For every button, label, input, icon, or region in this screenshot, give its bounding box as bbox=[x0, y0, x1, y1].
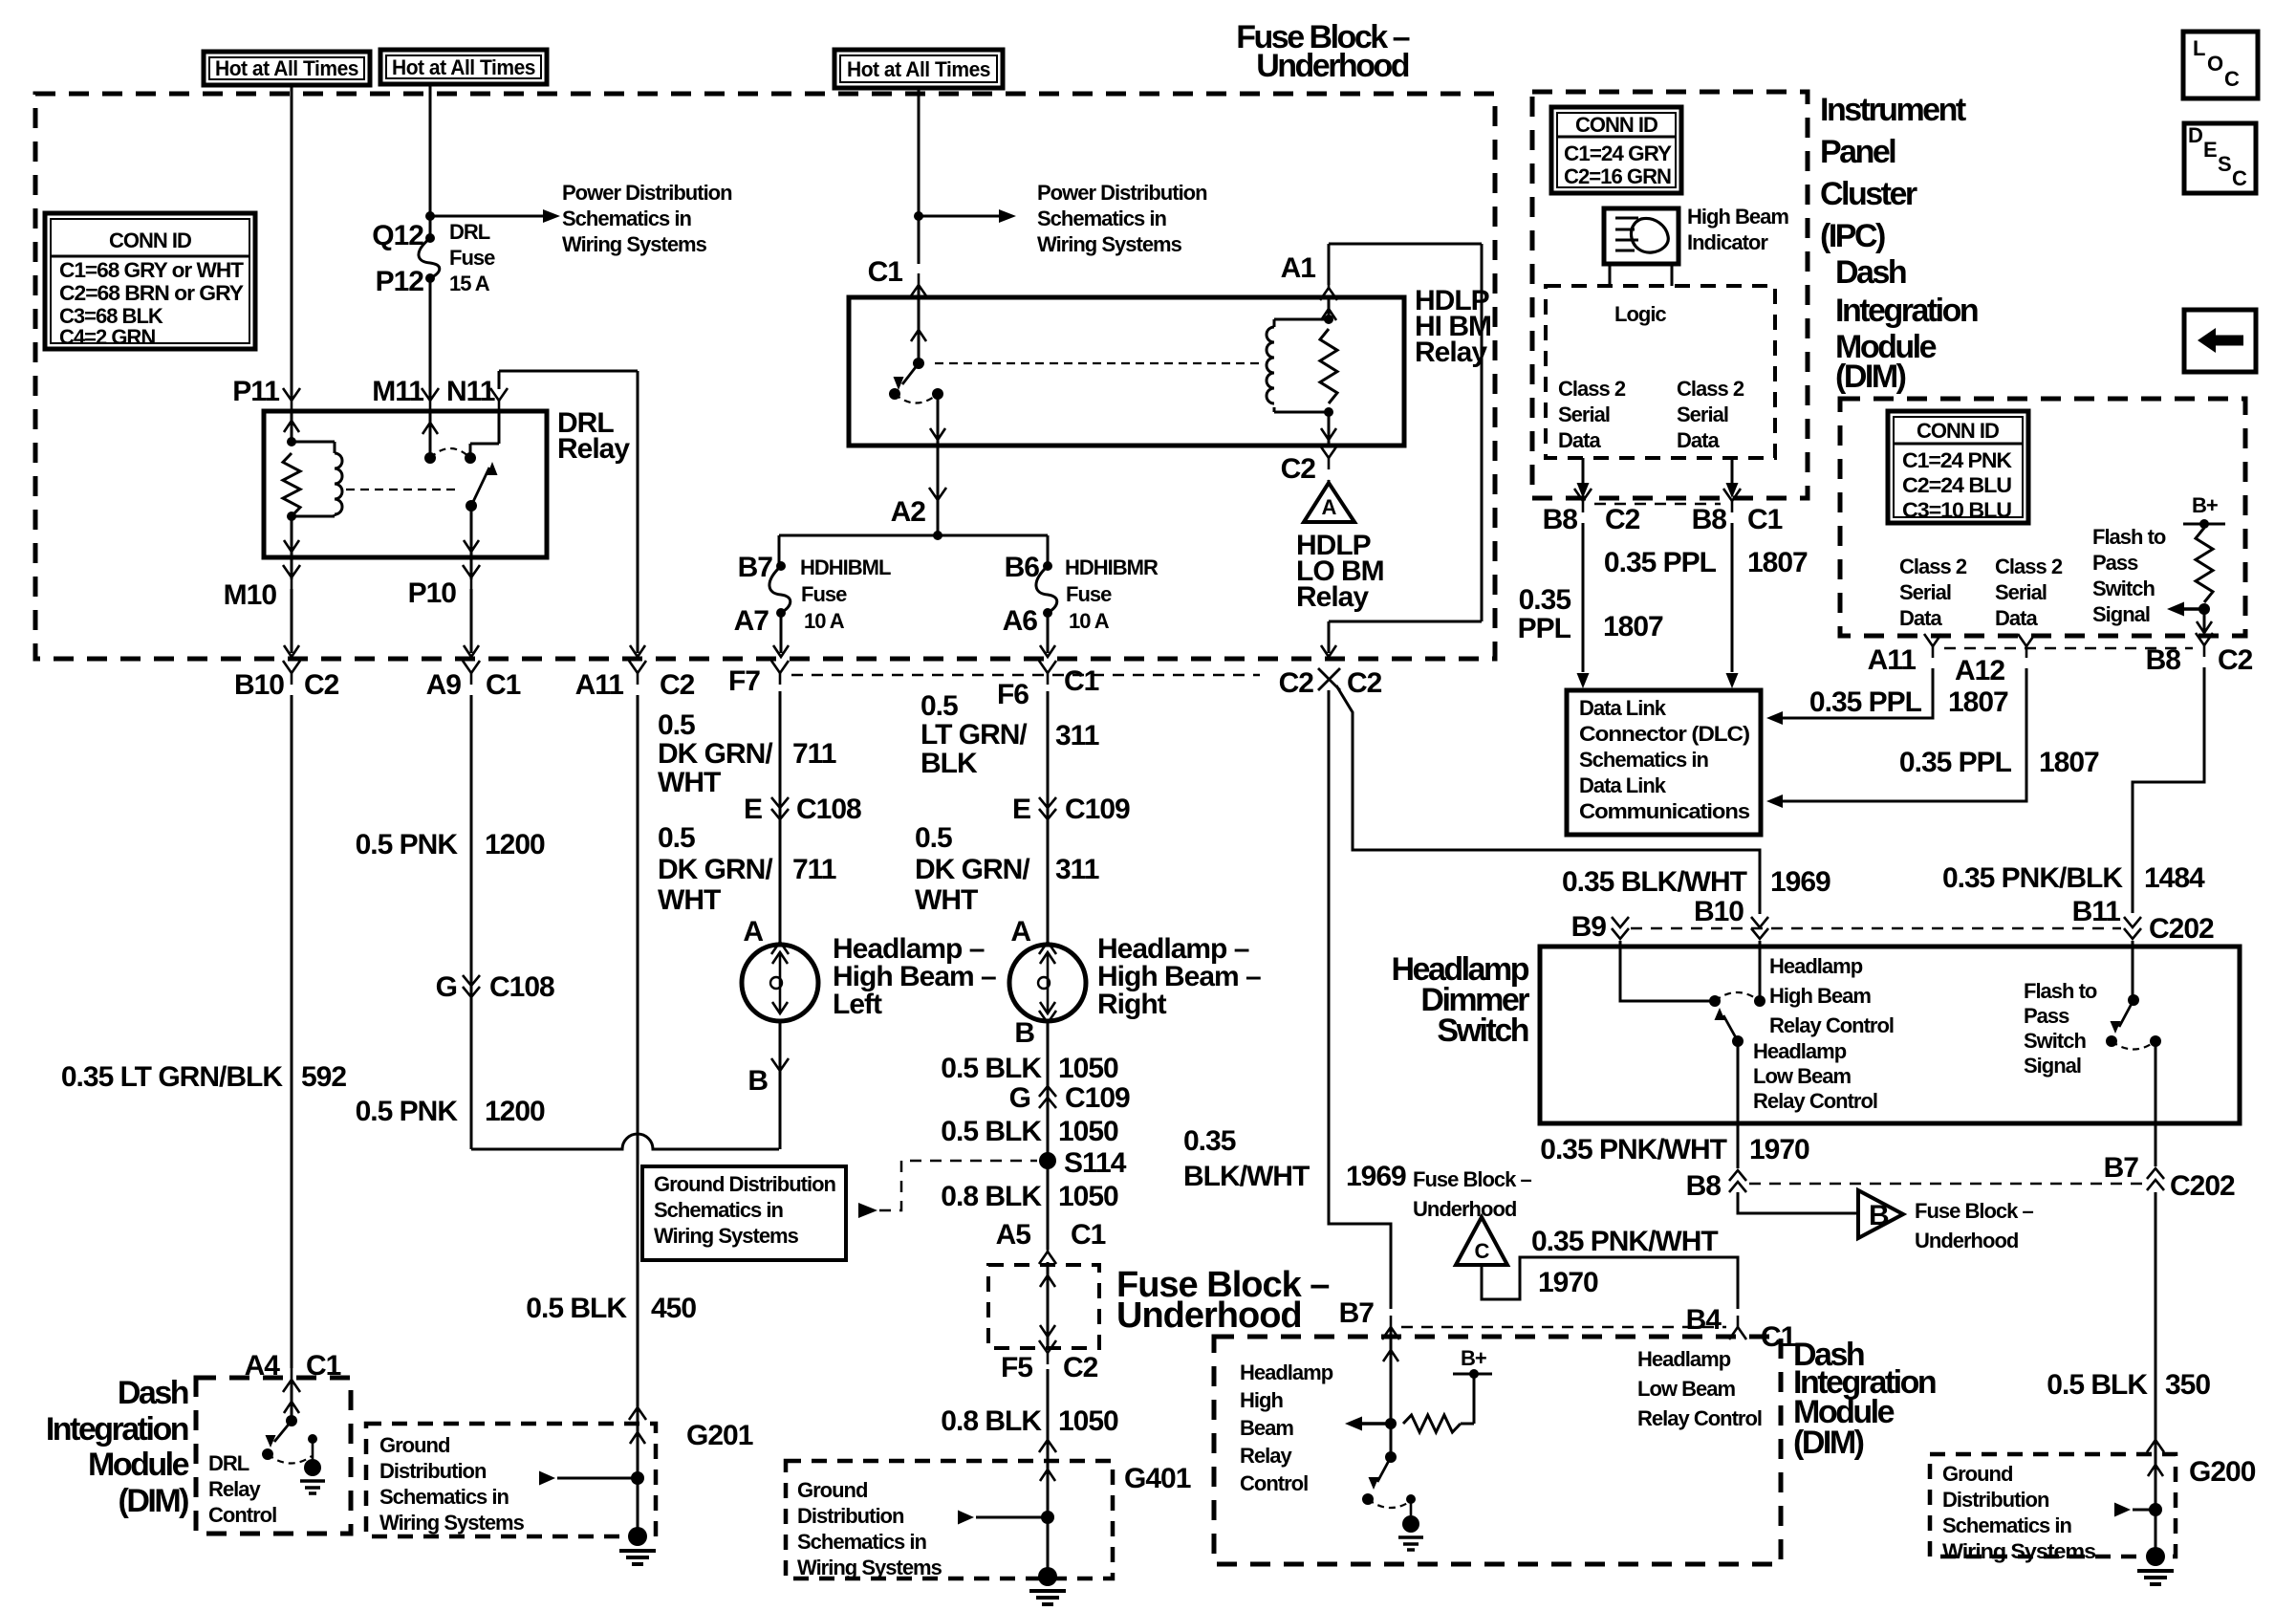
svg-text:B4: B4 bbox=[1686, 1304, 1722, 1336]
pin A (headlamp right) bbox=[1010, 916, 1056, 954]
junction on Hot2 wire bbox=[425, 211, 435, 221]
svg-text:WHT: WHT bbox=[658, 767, 721, 798]
svg-text:Schematics in: Schematics in bbox=[797, 1530, 927, 1554]
wire triangle C to B4 (0.35 PNK/WHT 1970) bbox=[1482, 1257, 1738, 1309]
label Class 2 Serial Data (DIM right) bbox=[1995, 555, 2063, 630]
splice S114 bbox=[1039, 1147, 1127, 1179]
svg-text:0.35 PNK/WHT: 0.35 PNK/WHT bbox=[1531, 1226, 1718, 1257]
node C2 x C2 crossing bbox=[1279, 667, 1382, 699]
svg-text:Relay: Relay bbox=[557, 433, 630, 465]
wire through fuse block pass-through bbox=[1040, 1262, 1055, 1350]
resistor high beam control (DIM) bbox=[1403, 1415, 1461, 1432]
svg-text:Fuse Block –: Fuse Block – bbox=[1915, 1199, 2033, 1223]
svg-text:Data: Data bbox=[1899, 606, 1942, 630]
reference arrow to S114 bbox=[858, 1161, 1037, 1218]
node G / C108 bbox=[436, 971, 554, 1003]
reference box Data Link Connector (DLC) bbox=[1567, 690, 1761, 835]
ground G201 bbox=[619, 1527, 656, 1564]
wire HDHIBMR fuse to F6 bbox=[1040, 613, 1055, 657]
svg-text:S: S bbox=[2218, 152, 2231, 176]
svg-text:Distribution: Distribution bbox=[379, 1459, 487, 1483]
flash to pass output contact bbox=[2150, 1035, 2161, 1047]
table CONN ID (IPC) bbox=[1551, 107, 1681, 193]
svg-text:Schematics in: Schematics in bbox=[654, 1198, 784, 1222]
svg-text:P12: P12 bbox=[376, 266, 424, 297]
svg-text:F6: F6 bbox=[997, 679, 1029, 710]
svg-text:B7: B7 bbox=[1339, 1297, 1375, 1329]
svg-text:Q12: Q12 bbox=[372, 220, 423, 251]
svg-text:DK GRN/: DK GRN/ bbox=[658, 854, 773, 885]
svg-text:1050: 1050 bbox=[1058, 1116, 1118, 1147]
node B10 bbox=[1694, 896, 1768, 939]
svg-text:Data: Data bbox=[1677, 428, 1720, 452]
svg-text:Schematics in: Schematics in bbox=[1037, 207, 1167, 230]
svg-text:1807: 1807 bbox=[1603, 611, 1663, 642]
svg-text:1807: 1807 bbox=[1747, 547, 1808, 578]
DRL relay coil-switch link (dashed) bbox=[346, 489, 459, 490]
node A4 / C1 bbox=[245, 1350, 341, 1392]
svg-text:Communications: Communications bbox=[1579, 799, 1750, 823]
resistor in HI BM relay bbox=[1320, 329, 1337, 403]
pin F5 / C2 bbox=[1001, 1340, 1098, 1383]
svg-text:C108: C108 bbox=[489, 971, 554, 1003]
label Headlamp Dimmer Switch bbox=[1392, 951, 1530, 1049]
svg-text:Data Link: Data Link bbox=[1579, 696, 1667, 720]
wire to power distribution reference (arrow) bbox=[430, 209, 560, 223]
svg-text:Module: Module bbox=[88, 1447, 189, 1483]
svg-text:C2: C2 bbox=[1063, 1352, 1098, 1383]
ground G401 bbox=[1029, 1567, 1066, 1604]
svg-text:C2: C2 bbox=[1281, 453, 1316, 485]
svg-text:WHT: WHT bbox=[915, 884, 978, 916]
svg-text:N11: N11 bbox=[446, 376, 495, 407]
label DRL Relay Control bbox=[208, 1451, 276, 1527]
svg-text:C2: C2 bbox=[1347, 667, 1382, 699]
svg-text:A11: A11 bbox=[1868, 644, 1917, 676]
G401 internal junction bbox=[1041, 1511, 1054, 1524]
node A11 (DIM) bbox=[1868, 634, 1941, 676]
wire into G201 ground bbox=[629, 1396, 646, 1536]
node B8 / C1 (IPC) bbox=[1692, 489, 1783, 535]
wire logic to B8 C1 bbox=[1726, 458, 1739, 498]
node A9 / C1 bbox=[426, 661, 521, 701]
svg-text:C1: C1 bbox=[1064, 665, 1099, 697]
svg-text:1050: 1050 bbox=[1058, 1181, 1118, 1212]
DIM connector row dashed line bbox=[1944, 647, 2193, 650]
label Headlamp - High Beam - Right bbox=[1097, 933, 1261, 1020]
HI BM relay switch throw arc (dashed) bbox=[895, 394, 938, 403]
svg-text:0.35 LT GRN/BLK: 0.35 LT GRN/BLK bbox=[61, 1061, 283, 1093]
svg-text:Pass: Pass bbox=[2024, 1004, 2069, 1028]
pin B (headlamp right) bbox=[1014, 1011, 1056, 1049]
svg-text:C1: C1 bbox=[868, 256, 903, 288]
svg-text:0.5: 0.5 bbox=[658, 822, 695, 854]
svg-text:High Beam: High Beam bbox=[1769, 984, 1871, 1008]
svg-text:E: E bbox=[744, 794, 762, 825]
svg-text:A12: A12 bbox=[1955, 655, 2004, 686]
wire headlamp left B down bbox=[779, 1021, 782, 1149]
svg-text:Data Link: Data Link bbox=[1579, 773, 1667, 797]
svg-text:Data: Data bbox=[1558, 428, 1601, 452]
wire B+ resistor to C2 exit bbox=[2197, 609, 2212, 633]
DRL relay control switch wiper bbox=[266, 1421, 292, 1448]
svg-text:C2: C2 bbox=[304, 669, 339, 701]
node E / C109 bbox=[1012, 794, 1130, 825]
reference box Ground Distribution Schematics in Wiring Systems (S114) bbox=[642, 1166, 846, 1260]
svg-text:Signal: Signal bbox=[2024, 1054, 2081, 1078]
node M10 bbox=[224, 557, 300, 611]
wire label 0.35 PPL 1807 (right IPC wire) bbox=[1604, 547, 1808, 578]
svg-text:(DIM): (DIM) bbox=[1793, 1425, 1864, 1461]
svg-text:G401: G401 bbox=[1124, 1463, 1191, 1494]
svg-text:C202: C202 bbox=[2170, 1170, 2235, 1202]
svg-text:Control: Control bbox=[208, 1503, 276, 1527]
svg-text:Underhood: Underhood bbox=[1915, 1229, 2018, 1252]
wire A11 to DLC (0.35 PPL) bbox=[1766, 668, 1933, 725]
label Headlamp Low Beam Relay Control (dimmer) bbox=[1753, 1039, 1877, 1113]
wire B10 C2 down to A4 bbox=[291, 695, 293, 1368]
connector row dashed line (C108/C109 side) bbox=[791, 674, 1260, 677]
symbol A triangle (HDLP LO BM Relay) bbox=[1304, 483, 1354, 522]
wire coil to M10 exit bbox=[284, 516, 299, 557]
svg-text:Dash: Dash bbox=[1835, 254, 1906, 291]
DRL relay switch wiper bbox=[471, 462, 498, 506]
wire A9 C1 down (0.5 PNK) bbox=[470, 695, 473, 1149]
svg-text:G: G bbox=[1009, 1082, 1030, 1114]
svg-text:C109: C109 bbox=[1065, 794, 1130, 825]
node F6 / C1 bbox=[997, 661, 1099, 710]
svg-text:Wiring Systems: Wiring Systems bbox=[654, 1224, 799, 1248]
wire C2 to HDLP LO BM relay symbol bbox=[1328, 480, 1331, 483]
svg-text:Fuse: Fuse bbox=[801, 582, 847, 606]
reference box DESC bbox=[2184, 123, 2256, 193]
wire down to HDHIBMR fuse bbox=[1047, 535, 1050, 564]
module box Instrument Panel Cluster (dashed) bbox=[1532, 92, 1808, 498]
wire M10 to fuse block edge bbox=[284, 589, 299, 657]
fuse block underhood pass-through box (dashed) bbox=[988, 1265, 1099, 1348]
svg-text:Fuse: Fuse bbox=[449, 246, 495, 270]
svg-text:1807: 1807 bbox=[1948, 686, 2008, 718]
G401 reference arrow bbox=[958, 1511, 1042, 1525]
svg-text:Integration: Integration bbox=[46, 1411, 188, 1448]
svg-text:0.35: 0.35 bbox=[1183, 1125, 1236, 1157]
svg-text:1970: 1970 bbox=[1538, 1267, 1598, 1298]
svg-text:Connector (DLC): Connector (DLC) bbox=[1579, 722, 1750, 746]
svg-text:Ground: Ground bbox=[379, 1433, 449, 1457]
svg-text:C2=16 GRN: C2=16 GRN bbox=[1564, 164, 1671, 188]
svg-text:C1: C1 bbox=[1747, 504, 1783, 535]
wire HDHIBML fuse to F7 bbox=[773, 613, 789, 657]
svg-text:B7: B7 bbox=[2104, 1152, 2139, 1184]
svg-text:1969: 1969 bbox=[1346, 1161, 1406, 1192]
label DRL Fuse 15 A bbox=[449, 220, 495, 295]
table CONN ID (fuse block) bbox=[45, 213, 255, 349]
svg-text:Wiring Systems: Wiring Systems bbox=[1037, 232, 1182, 256]
wire label 0.35 PNK/WHT 1970 (B8) bbox=[1540, 1134, 1809, 1165]
wire B8 C2 to DLC bbox=[1577, 523, 1590, 688]
svg-text:B: B bbox=[1869, 1200, 1889, 1231]
pin P12 bbox=[376, 266, 424, 297]
label G401 bbox=[1124, 1463, 1191, 1494]
pin A (headlamp left) bbox=[743, 916, 789, 954]
power feed box: Hot at All Times (middle) bbox=[380, 50, 547, 84]
wire C2 crossing down to B7 jog bbox=[1329, 690, 1391, 1309]
svg-text:CONN ID: CONN ID bbox=[109, 229, 191, 252]
G201 reference arrow bbox=[539, 1471, 632, 1486]
svg-text:Hot at All Times: Hot at All Times bbox=[215, 56, 358, 80]
DRL relay control ground contact bbox=[308, 1434, 317, 1459]
wire 0.35 BLK/WHT from C2 to B10 (dimmer) bbox=[1336, 686, 1760, 914]
label Dash Integration Module (DIM) bottom left bbox=[46, 1375, 189, 1519]
svg-text:B11: B11 bbox=[2072, 896, 2121, 927]
connector into G401 bbox=[1039, 1428, 1056, 1452]
wire B8 to fuse block reference B bbox=[1738, 1192, 1856, 1213]
wire logic to B8 C2 bbox=[1577, 458, 1590, 498]
wire B8 C2 to B11 (0.35 PNK/BLK) bbox=[2133, 667, 2204, 913]
label Headlamp High Beam Relay Control (DIM) bbox=[1240, 1361, 1333, 1495]
svg-text:Fuse Block –: Fuse Block – bbox=[1413, 1167, 1531, 1191]
svg-text:B6: B6 bbox=[1005, 552, 1040, 583]
node C1 (HDLP HI BM relay) bbox=[868, 256, 927, 297]
DRL relay switch throw arc (dashed) bbox=[430, 448, 470, 458]
wire N11 jog to A11 column bbox=[499, 371, 638, 653]
label Flash to Pass Switch Signal (DIM) bbox=[2092, 525, 2166, 626]
svg-text:592: 592 bbox=[301, 1061, 346, 1093]
wire F6 to headlamp right bbox=[1047, 691, 1050, 945]
node B7 / C202 (right) bbox=[2104, 1152, 2235, 1202]
svg-text:L: L bbox=[2193, 36, 2205, 60]
svg-text:C1: C1 bbox=[486, 669, 521, 701]
label Power Distribution Schematics in Wiring Systems (middle) bbox=[1037, 181, 1207, 256]
svg-text:O: O bbox=[2207, 52, 2223, 76]
label Fuse Block - Underhood (at B) bbox=[1915, 1199, 2033, 1252]
label HDHIBMR Fuse 10 A bbox=[1065, 555, 1159, 633]
G200 entry arrow bbox=[2148, 1465, 2163, 1476]
pin A5 / C1 bbox=[996, 1219, 1106, 1264]
resistor in DRL relay bbox=[283, 453, 300, 516]
svg-text:BLK: BLK bbox=[921, 748, 978, 779]
DRL relay control switch arc (dashed) bbox=[268, 1454, 312, 1464]
wire B11 into dimmer switch bbox=[2132, 941, 2134, 1000]
svg-text:711: 711 bbox=[792, 854, 836, 885]
svg-text:B8: B8 bbox=[1692, 504, 1727, 535]
wire down to HDHIBML fuse bbox=[778, 535, 781, 564]
svg-text:Instrument: Instrument bbox=[1820, 92, 1966, 128]
svg-text:G201: G201 bbox=[686, 1420, 753, 1451]
junction A2 feed bbox=[933, 531, 942, 540]
svg-text:0.35 PPL: 0.35 PPL bbox=[1809, 686, 1922, 718]
power feed box: Hot at All Times (right) bbox=[834, 50, 1003, 88]
DIM flash-to-pass signal arrow bbox=[2167, 602, 2204, 617]
DIM switch arc (dashed) bbox=[1368, 1499, 1411, 1508]
svg-text:C2: C2 bbox=[660, 669, 695, 701]
svg-text:Underhood: Underhood bbox=[1116, 1295, 1302, 1336]
wire label 0.35 PNK/BLK 1484 bbox=[1942, 862, 2205, 894]
label Class 2 Serial Data (IPC left) bbox=[1558, 377, 1626, 452]
label Headlamp - High Beam - Left bbox=[833, 933, 996, 1020]
svg-text:0.8 BLK: 0.8 BLK bbox=[941, 1405, 1042, 1437]
terminal B+ (DIM bottom) bbox=[1453, 1346, 1492, 1379]
svg-text:Power Distribution: Power Distribution bbox=[562, 181, 732, 205]
svg-text:0.5 PNK: 0.5 PNK bbox=[356, 829, 459, 860]
svg-text:C1: C1 bbox=[1071, 1219, 1106, 1251]
svg-text:1807: 1807 bbox=[2039, 747, 2099, 778]
svg-text:P10: P10 bbox=[408, 577, 457, 609]
DRL relay switch contact M11-side bbox=[424, 452, 436, 464]
wire Hot3 to C1 bbox=[918, 88, 921, 264]
wire label 0.5 BLK 1050 (below G C109) bbox=[941, 1116, 1118, 1147]
wire Hot1 to P11 bbox=[291, 85, 293, 401]
svg-text:C1=68 GRY or WHT: C1=68 GRY or WHT bbox=[59, 258, 245, 282]
svg-text:Ground: Ground bbox=[1942, 1462, 2012, 1486]
svg-text:Schematics in: Schematics in bbox=[562, 207, 692, 230]
dimmer switch arc (dashed) bbox=[1715, 992, 1760, 1001]
svg-text:A: A bbox=[743, 916, 763, 947]
wire label 0.35 PPL 1807 (A11) bbox=[1809, 686, 2008, 718]
node A2 bbox=[891, 488, 946, 528]
label Power Distribution Schematics in Wiring Systems (left) bbox=[562, 181, 732, 256]
reference triangle B (Fuse Block - Underhood) bbox=[1858, 1190, 1903, 1238]
label HDLP LO BM Relay bbox=[1296, 530, 1384, 613]
svg-text:450: 450 bbox=[651, 1293, 696, 1324]
label Class 2 Serial Data (DIM left) bbox=[1899, 555, 1967, 630]
DRL relay switch pivot bbox=[466, 500, 477, 512]
node B8 (dimmer bottom) bbox=[1686, 1170, 1746, 1202]
dimmer switch wiper bbox=[1715, 1008, 1739, 1041]
label Fuse Block - Underhood (middle) bbox=[1116, 1265, 1329, 1336]
label Headlamp Low Beam Relay Control (DIM) bbox=[1637, 1347, 1762, 1430]
DIM resistor output junction bbox=[2199, 603, 2210, 615]
svg-text:Integration: Integration bbox=[1835, 293, 1978, 329]
DRL relay control switch lower contact bbox=[262, 1448, 273, 1460]
node B7 (bottom DIM) bbox=[1339, 1297, 1399, 1339]
wire dimmer pivot to B8 bbox=[1737, 1041, 1740, 1168]
svg-text:711: 711 bbox=[792, 738, 836, 770]
pin B6 (HDHIBMR fuse) bbox=[1005, 552, 1040, 583]
DIM ground contact bbox=[1406, 1494, 1416, 1515]
wire A1 loop to C2 crossing bbox=[1321, 244, 1482, 657]
svg-text:C1=24 PNK: C1=24 PNK bbox=[1902, 448, 2012, 472]
svg-text:Serial: Serial bbox=[1677, 403, 1728, 426]
flash to pass upper contact bbox=[2128, 994, 2139, 1006]
svg-text:1484: 1484 bbox=[2144, 862, 2205, 894]
wire label 0.5 DK GRN/WHT 711 (lower left) bbox=[658, 822, 836, 916]
lamp Headlamp High Beam Left bbox=[742, 945, 818, 1021]
svg-text:C3=10 BLU: C3=10 BLU bbox=[1902, 498, 2011, 522]
svg-text:G200: G200 bbox=[2189, 1456, 2256, 1488]
svg-text:1970: 1970 bbox=[1749, 1134, 1809, 1165]
svg-text:10 A: 10 A bbox=[804, 609, 845, 633]
svg-text:Headlamp: Headlamp bbox=[1753, 1039, 1847, 1063]
DRL relay coil top junction bbox=[287, 437, 296, 446]
svg-text:A6: A6 bbox=[1003, 605, 1038, 637]
node P10 bbox=[408, 557, 480, 609]
node A12 (DIM) bbox=[1955, 634, 2035, 686]
wire F5 to G401 bbox=[1047, 1369, 1050, 1461]
svg-text:HDHIBML: HDHIBML bbox=[800, 555, 891, 579]
wire label 0.35 PPL 1807 (left IPC wire) bbox=[1518, 584, 1663, 644]
wire A4 into DIM bbox=[284, 1380, 299, 1421]
svg-text:0.5: 0.5 bbox=[921, 690, 958, 722]
HI BM relay switch contact right bbox=[932, 388, 943, 400]
G200 internal junction bbox=[2149, 1503, 2162, 1516]
wire into G401 ground bbox=[1040, 1461, 1055, 1577]
ground (DIM high beam control) bbox=[1398, 1515, 1423, 1550]
DIM switch wiper bbox=[1369, 1457, 1392, 1490]
svg-text:Switch: Switch bbox=[2024, 1029, 2086, 1053]
svg-text:A1: A1 bbox=[1281, 252, 1316, 284]
logic box (dashed) bbox=[1546, 286, 1775, 458]
svg-text:C4=2 GRN: C4=2 GRN bbox=[59, 325, 155, 349]
fuse block underhood outline (dashed) bbox=[35, 94, 1495, 659]
dimmer connector row dashed line C202 bbox=[1631, 927, 2121, 930]
svg-text:Panel: Panel bbox=[1820, 134, 1895, 170]
svg-text:B10: B10 bbox=[1694, 896, 1744, 927]
HI BM relay switch feed bbox=[911, 297, 926, 363]
svg-text:Data: Data bbox=[1995, 606, 2038, 630]
svg-text:0.8 BLK: 0.8 BLK bbox=[941, 1181, 1042, 1212]
svg-text:A7: A7 bbox=[734, 605, 769, 637]
svg-text:Flash to: Flash to bbox=[2024, 979, 2097, 1003]
wire label 0.5 DK GRN/WHT 711 (upper left) bbox=[658, 709, 836, 798]
svg-text:Headlamp: Headlamp bbox=[1240, 1361, 1333, 1384]
node B8 / C2 (IPC) bbox=[1543, 489, 1640, 535]
svg-text:1200: 1200 bbox=[485, 1096, 545, 1127]
label DRL Relay bbox=[557, 407, 630, 465]
svg-text:S114: S114 bbox=[1064, 1147, 1127, 1179]
svg-text:DK GRN/: DK GRN/ bbox=[915, 854, 1030, 885]
svg-text:BLK/WHT: BLK/WHT bbox=[1183, 1161, 1310, 1192]
svg-text:C: C bbox=[2232, 166, 2247, 190]
arrow into fuse block bottom (A11) bbox=[630, 645, 645, 657]
svg-text:0.35 PNK/BLK: 0.35 PNK/BLK bbox=[1942, 862, 2123, 894]
pin A6 bbox=[1003, 605, 1038, 637]
ground box G200 (dashed) bbox=[1930, 1454, 2176, 1563]
ground G200 bbox=[2137, 1547, 2174, 1584]
svg-text:Relay: Relay bbox=[208, 1477, 261, 1501]
svg-text:0.5 BLK: 0.5 BLK bbox=[526, 1293, 627, 1324]
svg-text:Dash: Dash bbox=[118, 1375, 188, 1411]
bottom DIM connector dashed line bbox=[1401, 1326, 1726, 1329]
table CONN ID (DIM) bbox=[1888, 411, 2028, 523]
fuse DRL Fuse 15 A bbox=[419, 233, 440, 283]
label Dash Integration Module (DIM) right bbox=[1835, 254, 1978, 395]
label G201 bbox=[686, 1420, 753, 1451]
wire label 0.5 DK GRN/WHT 311 bbox=[915, 822, 1099, 916]
indicator High Beam Indicator bbox=[1604, 208, 1679, 286]
svg-text:Right: Right bbox=[1097, 989, 1167, 1020]
svg-text:B10: B10 bbox=[234, 669, 284, 701]
ground box G201 (dashed) bbox=[366, 1424, 656, 1536]
wire flash contact to B7 bbox=[2155, 1041, 2157, 1166]
HI BM relay switch common bbox=[913, 358, 924, 369]
svg-text:C2: C2 bbox=[1605, 504, 1640, 535]
svg-text:Schematics in: Schematics in bbox=[1942, 1513, 2072, 1537]
svg-text:A: A bbox=[1322, 495, 1337, 519]
node B4 / C1 bbox=[1686, 1304, 1796, 1353]
DIM high beam signal arrow bbox=[1345, 1417, 1391, 1431]
svg-text:A5: A5 bbox=[996, 1219, 1031, 1251]
wire label 0.5 PNK 1200 (lower) bbox=[356, 1096, 545, 1127]
DRL relay switch feed arrow bbox=[422, 411, 438, 458]
svg-text:1050: 1050 bbox=[1058, 1053, 1118, 1084]
pin B (headlamp left) bbox=[747, 1058, 789, 1097]
node C2 (HDLP HI BM relay bottom) bbox=[1281, 446, 1337, 485]
svg-text:A9: A9 bbox=[426, 669, 462, 701]
wire label 0.35 BLK/WHT 1969 (top) bbox=[1562, 866, 1830, 898]
junction on Hot3 wire bbox=[914, 211, 923, 221]
svg-text:F5: F5 bbox=[1001, 1352, 1032, 1383]
